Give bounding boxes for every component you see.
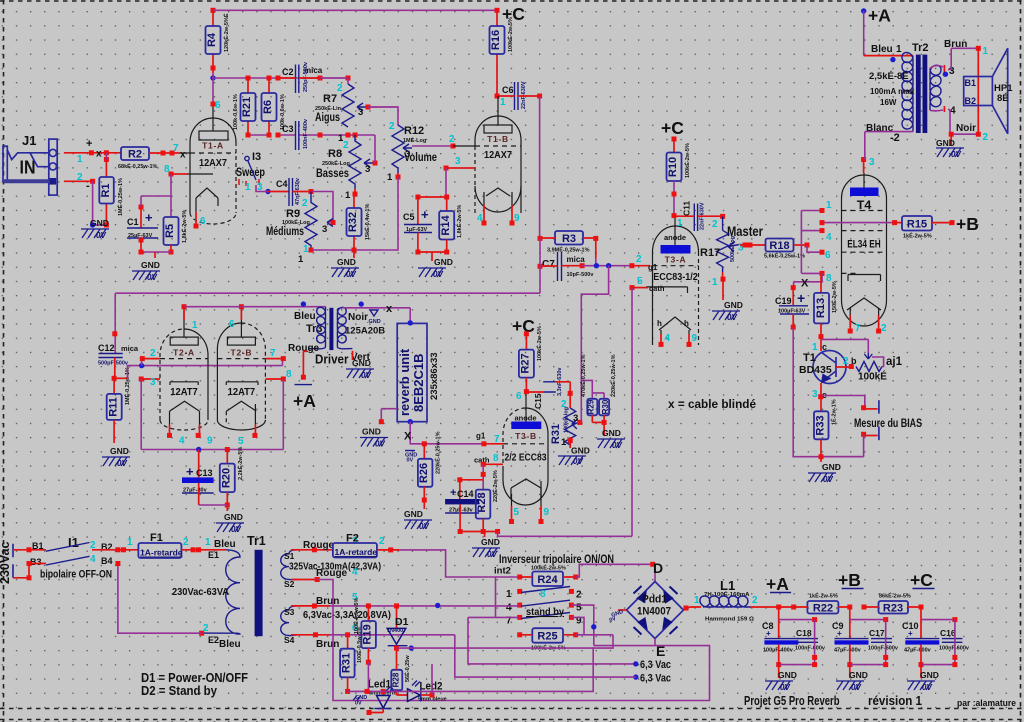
svg-text:S2: S2: [284, 579, 295, 589]
tube T2-B 12AT7: [217, 307, 265, 447]
wire T1-B grid entry: [453, 145, 475, 147]
svg-text:I1: I1: [68, 535, 79, 550]
svg-text:2,5kÉ-8É: 2,5kÉ-8É: [869, 71, 909, 82]
svg-text:22nF-630V: 22nF-630V: [521, 81, 527, 109]
svg-text:Bleu: Bleu: [219, 639, 241, 650]
svg-text:+A: +A: [293, 391, 316, 411]
svg-text:2: 2: [576, 590, 582, 601]
svg-text:T2-A: T2-A: [173, 348, 195, 358]
svg-text:C12: C12: [98, 343, 115, 353]
svg-text:R32: R32: [347, 212, 359, 232]
svg-text:230Vac-63VA: 230Vac-63VA: [172, 586, 229, 598]
svg-text:235x86x33: 235x86x33: [429, 352, 440, 400]
wire R31 bottom row: [348, 647, 594, 691]
svg-text:5: 5: [637, 276, 643, 287]
fuse F1: [127, 532, 189, 558]
svg-text:8É: 8É: [997, 93, 1009, 104]
led Led1: [367, 662, 397, 715]
svg-text:4: 4: [90, 554, 96, 565]
svg-text:Noir: Noir: [956, 123, 976, 134]
svg-text:1: 1: [712, 277, 718, 288]
svg-text:1,8kÉ-2w-5%: 1,8kÉ-2w-5%: [180, 210, 188, 243]
svg-text:6,3Vac-3,3A(20,8VA): 6,3Vac-3,3A(20,8VA): [303, 609, 391, 621]
svg-text:R1: R1: [100, 183, 112, 197]
ground under C9: [836, 665, 868, 692]
svg-text:1É-2w-1%: 1É-2w-1%: [830, 399, 838, 425]
svg-text:2: 2: [712, 219, 718, 230]
capacitor C17: [850, 617, 899, 667]
svg-text:Brun: Brun: [944, 39, 967, 50]
svg-text:BD435: BD435: [799, 364, 832, 376]
wire I1 return to Tr1 E2: [118, 564, 202, 634]
resistor R14: [439, 197, 463, 255]
svg-text:x: x: [96, 149, 102, 160]
transformer Tr3: [288, 301, 385, 363]
svg-text:0V: 0V: [780, 683, 790, 692]
node cathode R14 C5: [444, 195, 449, 200]
svg-text:-: -: [86, 180, 90, 192]
svg-text:5: 5: [576, 603, 582, 614]
svg-text:mica: mica: [567, 255, 586, 264]
speaker HP1: [964, 46, 1013, 143]
bridge rectifier Pdd1: [627, 560, 684, 659]
svg-text:1: 1: [506, 589, 512, 600]
svg-text:S1: S1: [284, 551, 295, 561]
wire terminal1 to I1: [13, 549, 46, 551]
svg-text:470kÉ-0,25w-1%: 470kÉ-0,25w-1%: [579, 354, 587, 397]
svg-text:10pF-500v: 10pF-500v: [567, 272, 595, 278]
tiny gnd left of R26: [405, 450, 415, 452]
test point 2: [861, 432, 866, 437]
svg-text:6: 6: [516, 391, 522, 402]
resistor R1: [99, 153, 124, 228]
svg-text:R20: R20: [221, 468, 233, 488]
capacitor C5: [403, 197, 432, 255]
svg-text:3: 3: [573, 413, 578, 424]
svg-text:GND: GND: [724, 300, 743, 310]
svg-text:R25: R25: [537, 631, 557, 643]
svg-text:2: 2: [389, 121, 395, 132]
svg-text:100nF-600v: 100nF-600v: [795, 646, 826, 652]
svg-text:2/2 ECC83: 2/2 ECC83: [505, 452, 547, 464]
ground under Tr3 Vert: [346, 351, 374, 380]
svg-text:R28: R28: [392, 672, 401, 687]
resistor R26: [418, 431, 442, 509]
resistor R32: [347, 194, 372, 250]
wire collector rail to aj1: [821, 339, 868, 353]
T4 anode wire from Tr2: [861, 157, 866, 162]
svg-text:2: 2: [77, 172, 83, 183]
svg-text:8: 8: [493, 453, 499, 464]
svg-text:R17: R17: [700, 247, 720, 259]
svg-text:E1: E1: [208, 550, 219, 560]
svg-text:2: 2: [150, 348, 156, 359]
svg-text:R26: R26: [418, 463, 430, 483]
svg-text:C15: C15: [533, 393, 543, 409]
svg-text:R12: R12: [404, 125, 424, 137]
svg-text:0V: 0V: [727, 313, 737, 322]
svg-text:2: 2: [302, 198, 308, 209]
resistor R16: [490, 10, 515, 96]
svg-text:reverb unit: reverb unit: [397, 348, 412, 416]
svg-text:1: 1: [826, 200, 832, 211]
svg-text:8: 8: [164, 164, 170, 175]
svg-text:R23: R23: [883, 603, 903, 615]
svg-text:2: 2: [183, 537, 189, 548]
svg-text:GND: GND: [90, 218, 109, 228]
capacitor C15: [526, 367, 572, 409]
capacitor C14: [445, 477, 483, 534]
svg-text:7: 7: [270, 348, 276, 359]
wire C14 R28 bottom bus: [460, 531, 498, 533]
svg-text:T1-B: T1-B: [487, 134, 509, 144]
svg-text:D1: D1: [395, 616, 409, 628]
svg-text:9: 9: [692, 333, 698, 344]
ground under R32: [331, 257, 359, 279]
tube T1-B 12AX7: [475, 96, 521, 226]
led Led2: [397, 677, 447, 702]
svg-text:1A-retarde: 1A-retarde: [335, 547, 378, 557]
svg-text:Brun: Brun: [316, 639, 339, 650]
svg-text:R15: R15: [907, 219, 927, 231]
wire T2-A cathode: [139, 377, 144, 382]
svg-text:5: 5: [238, 436, 244, 447]
svg-text:R18: R18: [769, 240, 789, 252]
resistor R10: [667, 139, 692, 229]
svg-text:125A20B: 125A20B: [345, 326, 385, 337]
potentiometer R17 Master: [700, 216, 764, 300]
svg-text:L1: L1: [720, 578, 735, 593]
wire pole rows: [330, 605, 520, 607]
svg-text:g1: g1: [476, 432, 486, 441]
ground under R17: [712, 300, 743, 322]
svg-text:C19: C19: [775, 296, 792, 306]
svg-text:2: 2: [881, 323, 887, 334]
svg-text:ECC83-1/2: ECC83-1/2: [653, 271, 698, 283]
svg-text:GND: GND: [404, 509, 423, 519]
svg-text:100k-0,6w-1%: 100k-0,6w-1%: [233, 94, 239, 130]
wire Tr3 secondary top to reverb unit: [343, 308, 411, 324]
svg-text:+: +: [450, 487, 456, 499]
svg-text:B1: B1: [965, 78, 977, 88]
svg-text:R13: R13: [815, 298, 827, 318]
svg-text:R3: R3: [562, 233, 576, 245]
transformer Tr2: [865, 39, 979, 160]
svg-text:500pF-500v: 500pF-500v: [98, 361, 129, 367]
svg-text:GND: GND: [141, 260, 160, 270]
switch int2 poles: [506, 587, 582, 627]
resistor R19: [352, 598, 376, 665]
svg-text:par :alamature: par :alamature: [957, 698, 1016, 709]
svg-text:D: D: [653, 560, 663, 576]
ground under R30: [597, 428, 625, 450]
wire sweep to C4: [265, 189, 270, 194]
svg-text:15kÉ-0,4w-1%: 15kÉ-0,4w-1%: [363, 204, 371, 240]
svg-text:GND: GND: [936, 138, 955, 148]
ground under R33: [808, 462, 841, 484]
capacitor C6: [497, 81, 542, 110]
wire R7 wiper to R12: [368, 107, 398, 125]
resistor R31 heater: [340, 627, 363, 694]
ground under C10: [907, 665, 939, 692]
svg-text:E2: E2: [208, 635, 219, 645]
svg-text:5: 5: [514, 507, 520, 518]
resistor R6: [262, 78, 287, 135]
resistor R5: [164, 210, 189, 255]
resistor R13: [814, 273, 838, 339]
svg-text:4: 4: [665, 333, 671, 344]
svg-text:6: 6: [825, 250, 831, 261]
svg-text:GND: GND: [822, 462, 841, 472]
svg-text:6,3 Vac: 6,3 Vac: [640, 659, 671, 671]
svg-text:56É-0,25w: 56É-0,25w: [403, 655, 411, 682]
svg-text:12AX7: 12AX7: [484, 149, 512, 161]
svg-text:0V: 0V: [231, 525, 241, 534]
svg-text:Projet G5 Pro Reverb: Projet G5 Pro Reverb: [744, 693, 840, 708]
svg-text:0V: 0V: [851, 683, 861, 692]
svg-text:86kÉ-2w-5%: 86kÉ-2w-5%: [879, 592, 911, 600]
svg-text:+: +: [797, 290, 805, 306]
svg-text:R10: R10: [667, 157, 679, 177]
svg-text:6: 6: [200, 216, 206, 227]
ground under C8: [765, 665, 797, 692]
svg-text:0V: 0V: [419, 522, 429, 531]
wire +A to Tr2: [863, 11, 865, 56]
svg-text:0V: 0V: [147, 273, 157, 282]
svg-text:R29: R29: [587, 399, 596, 414]
svg-text:9: 9: [514, 213, 520, 224]
svg-text:Tr1: Tr1: [247, 534, 266, 548]
wire T1-B cathode: [462, 167, 475, 169]
svg-text:2: 2: [983, 132, 989, 143]
svg-text:C17: C17: [869, 628, 885, 638]
ground under R26: [404, 509, 432, 531]
svg-text:1: 1: [694, 595, 700, 606]
resistor R18: [764, 239, 810, 260]
ground under Tr2: [936, 132, 964, 159]
ground under R28: [472, 537, 500, 559]
svg-text:250pF-500v: 250pF-500v: [303, 61, 309, 92]
grid row wire to T3-A: [580, 263, 585, 268]
resistor R28: [476, 470, 499, 534]
svg-text:100kÉ-2w-5%: 100kÉ-2w-5%: [531, 564, 566, 572]
svg-text:6: 6: [229, 319, 235, 330]
svg-text:stand by: stand by: [526, 606, 564, 618]
wire R3 right down to grid row: [595, 238, 597, 258]
svg-text:x: x: [386, 303, 393, 315]
wire S4 row to R31 R19 D1: [330, 634, 455, 636]
svg-text:R21: R21: [241, 97, 253, 117]
svg-text:R5: R5: [164, 224, 176, 238]
wire T2-B cathode: [281, 377, 286, 382]
resistor R27: [516, 326, 543, 402]
capacitor C10: [902, 607, 939, 667]
svg-text:12AT7: 12AT7: [170, 386, 198, 398]
potentiometer R7 Aigus: [315, 83, 371, 127]
svg-text:R19: R19: [362, 624, 374, 644]
svg-text:R31: R31: [341, 653, 353, 673]
svg-text:Volume: Volume: [404, 150, 437, 164]
svg-text:4: 4: [179, 436, 185, 447]
resistor R22: [794, 592, 850, 615]
svg-text:C2: C2: [282, 67, 294, 77]
svg-text:2: 2: [379, 536, 385, 547]
svg-text:+: +: [766, 629, 771, 638]
svg-text:GND: GND: [778, 670, 797, 680]
wire bridge out to L1: [684, 607, 702, 610]
svg-text:0V: 0V: [823, 475, 833, 484]
switch I1: [30, 535, 113, 567]
tiny gnd at Tr3: [367, 310, 381, 325]
tube T4 EL34: [842, 173, 888, 334]
svg-text:R2: R2: [128, 149, 142, 161]
resistors R29 R30: [579, 354, 617, 436]
tube T1-A 12AX7: [187, 104, 236, 229]
svg-text:100kÉ-log: 100kÉ-log: [562, 407, 570, 433]
svg-text:C1: C1: [127, 217, 139, 227]
svg-text:3: 3: [358, 107, 363, 118]
svg-text:1: 1: [345, 190, 351, 201]
transformer Tr1: [172, 534, 266, 650]
svg-text:Médiums: Médiums: [266, 224, 304, 238]
svg-text:GND: GND: [920, 670, 939, 680]
wire F2 to R24: [399, 550, 520, 577]
svg-text:B3: B3: [30, 557, 42, 567]
wire T3-B grid g1: [481, 441, 486, 446]
capacitor C9: [832, 607, 869, 667]
svg-text:1: 1: [127, 537, 133, 548]
wire R2 to T1-A grid: [149, 152, 180, 154]
svg-text:0V: 0V: [96, 231, 106, 240]
svg-text:100kÉ-2w-5%: 100kÉ-2w-5%: [506, 17, 514, 52]
node T1-B anode / C6: [495, 94, 500, 99]
wire C2 to R7 top: [320, 78, 348, 84]
svg-text:S3: S3: [284, 607, 295, 617]
svg-text:0V: 0V: [361, 371, 371, 380]
svg-text:B4: B4: [101, 556, 113, 566]
svg-text:1: 1: [896, 44, 902, 55]
svg-text:R9: R9: [286, 208, 300, 220]
wire R17 wiper to R18: [740, 244, 766, 246]
svg-text:0V: 0V: [487, 550, 497, 559]
svg-text:-2: -2: [890, 132, 900, 144]
capacitor C4: [276, 177, 314, 206]
svg-text:R6: R6: [262, 100, 274, 114]
svg-text:R8: R8: [328, 148, 342, 160]
svg-text:GND: GND: [362, 427, 381, 437]
svg-text:100kÉ-2w-5%: 100kÉ-2w-5%: [683, 143, 691, 178]
svg-text:2: 2: [752, 595, 758, 606]
svg-text:100kÉ-2w-5%: 100kÉ-2w-5%: [535, 326, 543, 361]
Tr1 secondary S1 S2: [281, 536, 381, 589]
svg-text:1: 1: [245, 182, 251, 193]
svg-text:B1: B1: [32, 541, 44, 551]
svg-text:+: +: [145, 210, 153, 225]
resistor R20: [220, 447, 244, 511]
svg-text:120kÉ-2w-5%É: 120kÉ-2w-5%É: [222, 13, 230, 52]
svg-text:GND: GND: [337, 257, 356, 267]
capacitor C1: [127, 196, 171, 252]
wire T2-B grid: [281, 356, 286, 361]
wire R18 to T4 grid pin6: [807, 245, 822, 252]
svg-text:S4: S4: [284, 635, 295, 645]
svg-text:C11: C11: [682, 201, 692, 216]
svg-text:GND: GND: [849, 670, 868, 680]
svg-text:T3-A: T3-A: [665, 255, 687, 265]
svg-text:0V: 0V: [375, 440, 385, 449]
svg-text:EL34 EH: EL34 EH: [847, 239, 881, 251]
svg-text:+: +: [837, 629, 842, 638]
ground under C1 R5: [132, 260, 160, 282]
svg-text:.GND: .GND: [367, 319, 381, 325]
capacitor C11: [674, 201, 725, 231]
svg-text:1N4007: 1N4007: [387, 628, 406, 634]
svg-text:220kÉ-0,25w-1%: 220kÉ-0,25w-1%: [434, 431, 442, 474]
resistor R11: [107, 367, 131, 443]
svg-text:3: 3: [322, 224, 327, 235]
svg-text:1MÉ-Log: 1MÉ-Log: [403, 136, 426, 144]
wire led row joins: [431, 664, 433, 677]
svg-text:1A-retarde: 1A-retarde: [140, 548, 183, 558]
wire T1-A cathode to R5: [171, 173, 187, 175]
resistor R23: [864, 592, 921, 615]
svg-text:x: x: [180, 150, 186, 161]
wire C1 R5 to ground: [141, 251, 171, 253]
svg-text:+: +: [421, 207, 429, 222]
wire +B row: [822, 222, 895, 224]
svg-text:1: 1: [77, 154, 83, 165]
svg-text:2,2kÉ-2w-5%: 2,2kÉ-2w-5%: [236, 447, 244, 480]
svg-text:Driver: Driver: [315, 352, 349, 367]
svg-text:1,8kÉ-2w-5%: 1,8kÉ-2w-5%: [455, 205, 463, 238]
transistor T1 BD435: [799, 337, 857, 400]
tube T2-A 12AT7: [160, 307, 213, 447]
switch I3 Sweep: [236, 151, 265, 193]
capacitor C2: [278, 61, 323, 93]
resistor R15: [895, 216, 955, 240]
svg-text:T1-A: T1-A: [202, 141, 224, 151]
svg-text:1: 1: [677, 218, 683, 229]
svg-text:Basses: Basses: [316, 166, 349, 180]
svg-text:GND: GND: [602, 428, 621, 438]
wire node to tone stack rail: [213, 77, 348, 79]
svg-text:Hammond 159 Ω: Hammond 159 Ω: [705, 617, 755, 623]
svg-text:3: 3: [812, 389, 818, 400]
svg-text:C14: C14: [457, 489, 474, 499]
svg-text:mica: mica: [121, 344, 139, 353]
wire reverb unit out with X: [410, 422, 484, 444]
svg-text:révision 1: révision 1: [868, 693, 922, 708]
svg-text:100nF-600v: 100nF-600v: [868, 646, 899, 652]
svg-text:X: X: [404, 431, 412, 443]
svg-text:500kÉ-log: 500kÉ-log: [728, 236, 736, 262]
wire grid bus T2: [114, 377, 127, 379]
svg-text:R16: R16: [490, 30, 502, 50]
wire J1 pin2: [64, 180, 93, 182]
wire cathode bottom loop: [141, 449, 283, 451]
svg-text:100nF-400v: 100nF-400v: [303, 118, 309, 149]
svg-text:B2: B2: [965, 96, 977, 106]
wire F1 to Tr1: [181, 549, 225, 551]
svg-text:4: 4: [352, 567, 358, 578]
svg-text:68kÉ-0,25w-1%: 68kÉ-0,25w-1%: [118, 162, 158, 170]
svg-text:GND: GND: [481, 537, 500, 547]
svg-text:X: X: [801, 278, 809, 290]
svg-text:0V: 0V: [346, 270, 356, 279]
svg-text:47µF-600v: 47µF-600v: [834, 648, 862, 654]
tube T3-B ECC83: [503, 392, 550, 524]
svg-text:0V: 0V: [117, 459, 127, 468]
